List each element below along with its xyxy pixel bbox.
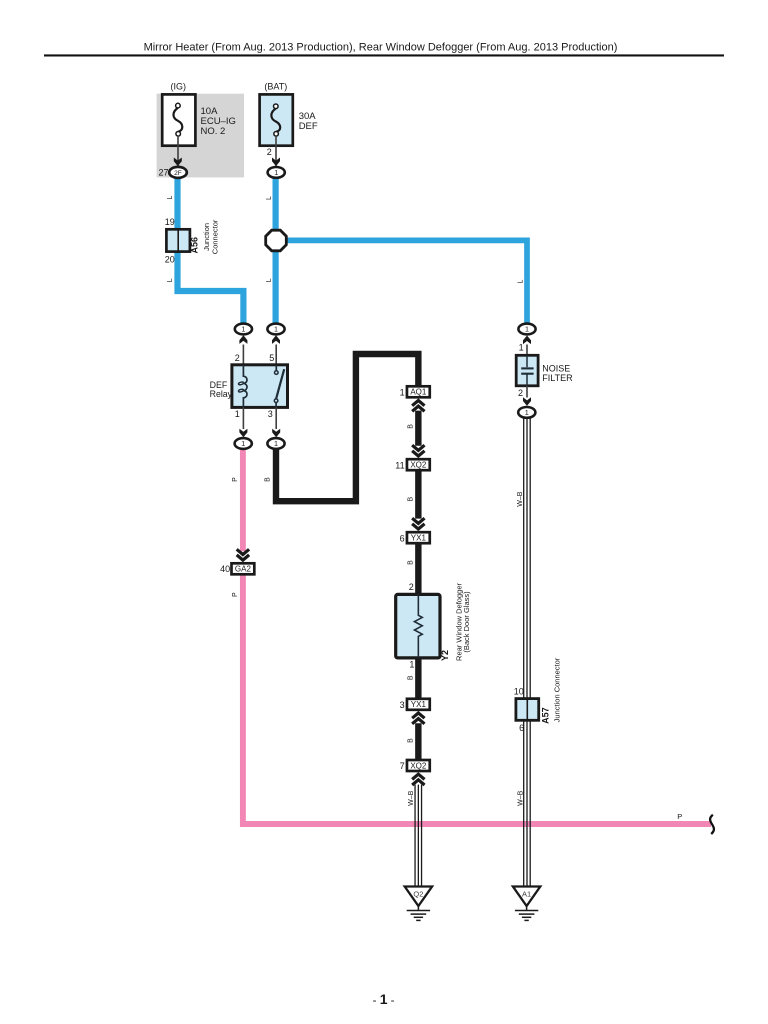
pin stub relay pin 5 [275,345,277,365]
label L (right wire upper) [266,196,273,200]
label P (wire P lower) [232,592,239,597]
svg-text:GA2: GA2 [235,565,252,574]
junction connector A56 [166,229,190,251]
svg-text:10: 10 [514,687,524,697]
label Y2 [440,650,450,661]
wire B connector YX1 to defogger Y2 pin 2 [415,543,421,595]
label Rear Window Defogger (Back Door Glass) [455,583,471,661]
svg-text:P: P [232,477,239,482]
svg-text:2: 2 [409,582,414,592]
svg-text:1: 1 [241,439,245,448]
svg-text:XQ2: XQ2 [410,761,427,770]
wire B from DEF relay pin 3 to connector AQ1 [276,354,418,501]
ground A1 [513,887,540,921]
fuse 10A ECU-IG NO.2 (IG) [162,82,236,146]
svg-text:2: 2 [267,147,272,157]
svg-text:1: 1 [235,409,240,419]
relay coil [238,365,247,408]
svg-text:1: 1 [400,387,405,397]
pin 2 label (fuse DEF) [267,147,272,157]
chevrons into connector YX1 [412,518,424,529]
svg-text:L: L [266,196,273,200]
label B (Y2-YX1) [408,675,415,680]
pin 1 label (relay) [235,409,240,419]
svg-text:2: 2 [518,388,523,398]
svg-text:1: 1 [519,343,524,353]
svg-text:3: 3 [400,700,405,710]
connector XQ2 lower [407,760,430,771]
label Junction Connector (A57) [553,657,562,722]
arrow into connector 2F [174,158,182,167]
noise filter box [516,355,538,386]
svg-text:1: 1 [274,325,278,334]
relay DEF box [232,365,288,408]
pin 2 label (relay) [235,353,240,363]
label P (wire P at page edge) [677,812,682,821]
label P (wire P upper) [232,477,239,482]
wire P from connector GA2 to page edge [243,574,711,824]
wire B defogger Y2 pin 1 to connector YX1 [415,657,421,700]
wire W-B connector XQ2 to ground Q2 [415,785,422,887]
svg-text:FILTER: FILTER [542,373,573,383]
svg-text:1: 1 [409,660,414,670]
svg-text:Mirror Heater (From Aug. 2013: Mirror Heater (From Aug. 2013 Production… [144,42,618,54]
pin 7 label (XQ2 lower) [400,761,405,771]
svg-text:A57: A57 [540,707,550,724]
pin 6 label (A57) [519,723,524,733]
connector oval 1 (noise filter) [518,407,535,418]
label W-B (right wire lower) [518,790,525,806]
svg-text:AQ1: AQ1 [410,388,427,397]
label A57 [540,707,550,724]
chevrons into connector YX1 lower [412,713,424,724]
svg-text:Q2: Q2 [413,890,423,899]
svg-text:5: 5 [269,353,274,363]
pin 2 label (noise filter) [518,388,523,398]
wire B connector AQ1 to connector XQ2 [415,411,421,446]
svg-text:(Back Door Glass): (Back Door Glass) [462,591,471,653]
svg-text:40: 40 [220,564,230,574]
wire L from fuse ECU-IG via A56 to DEF relay pin 2 [178,176,244,328]
arrow into connector (relay pin 5) [272,335,280,344]
connector 2F oval [169,167,187,178]
ground Q2 [405,887,432,921]
svg-text:P: P [232,592,239,597]
connector oval 1 (relay pin 2) [235,324,252,335]
svg-text:NOISE: NOISE [542,364,570,374]
connector oval 1 (relay pin 3) [267,438,284,449]
svg-text:B: B [408,497,415,502]
connector oval 1 (relay pin 1) [235,438,252,449]
svg-text:NO. 2: NO. 2 [201,126,226,137]
label W-B (right wire upper) [517,491,524,507]
svg-text:L: L [266,278,273,282]
wire L from fuse DEF to DEF relay pin 5 [273,176,279,328]
pin 2 label (Y2) [409,582,414,592]
pin 10 label (A57) [514,687,524,697]
wire B connector YX1 to connector XQ2 [415,723,421,760]
svg-text:1: 1 [525,325,529,334]
chevrons into connector XQ2 [412,445,424,456]
svg-text:27: 27 [158,168,168,178]
label L (left wire lower) [167,278,174,282]
pin stub relay pin 2 [242,345,244,365]
junction connector A57 [516,699,539,721]
connector YX1 lower [407,699,430,710]
svg-text:XQ2: XQ2 [410,461,427,470]
svg-text:B: B [408,560,415,565]
label A56 [190,237,200,254]
defogger Y2 box [396,594,440,658]
pin 1 label (Y2) [409,660,414,670]
label B (AQ1-XQ2) [408,424,415,429]
arrow into connector (relay pin 1) [239,429,247,438]
chevrons into connector AQ1 [412,401,424,412]
fuse 30A DEF (BAT) [260,82,318,146]
svg-text:(IG): (IG) [171,82,187,92]
svg-text:Connector: Connector [211,219,220,254]
svg-text:1: 1 [241,325,245,334]
svg-text:L: L [518,279,525,283]
wire B connector XQ2 to connector YX1 [415,470,421,518]
svg-text:6: 6 [519,723,524,733]
svg-text:YX1: YX1 [411,534,427,543]
svg-text:B: B [408,738,415,743]
label DEF Relay [210,380,233,399]
pin 27 label [158,168,168,178]
svg-text:(BAT): (BAT) [264,82,287,92]
svg-text:A56: A56 [190,237,200,254]
defogger Y2 resistor [414,594,422,658]
connector AQ1 [407,386,430,397]
pin 3 label (relay) [268,409,273,419]
pin 40 label (GA2) [220,564,230,574]
relay block shading (gray) [157,94,244,178]
label B (XQ2-YX1) [408,497,415,502]
connector XQ2 [407,459,430,470]
svg-text:DEF: DEF [299,121,318,132]
svg-text:L: L [167,278,174,282]
label B (YX1-XQ2 lower) [408,738,415,743]
arrow into connector (noise filter pin 2) [523,397,531,406]
svg-text:A1: A1 [522,890,531,899]
arrow into connector 1 (fuse DEF) [272,158,280,167]
svg-text:6: 6 [400,533,405,543]
pin 19 label (A56) [165,217,175,227]
title [144,42,618,54]
svg-text:20: 20 [165,255,175,265]
svg-text:2: 2 [235,353,240,363]
pin stub fuse IG to connector 2F [177,136,179,166]
connector oval 1 (fuse DEF) [268,167,285,178]
label L (right wire lower) [266,278,273,282]
pin stub relay pin 1 [242,407,244,429]
pin 20 label (A56) [165,255,175,265]
svg-text:Junction: Junction [202,223,211,251]
svg-text:B: B [408,675,415,680]
svg-text:B: B [408,424,415,429]
svg-text:YX1: YX1 [411,700,427,709]
pin 5 label (relay) [269,353,274,363]
label Junction Connector (A56) [202,219,220,254]
svg-text:W–B: W–B [408,790,415,806]
label L (noise filter branch) [518,279,525,283]
pin 3 label (YX1 lower) [400,700,405,710]
pin 11 label (XQ2) [395,460,404,470]
svg-text:P: P [677,812,682,821]
wire L from junction node to noise filter [285,240,527,327]
title rule [44,54,724,56]
wire P continuation squiggle [710,815,714,834]
label NOISE FILTER [542,364,573,384]
svg-text:W–B: W–B [517,491,524,507]
chevrons into connector XQ2 lower [412,774,424,785]
junction node (octagon) [266,230,287,251]
svg-text:11: 11 [395,460,404,470]
pin 1 label (AQ1) [400,387,405,397]
svg-text:Relay: Relay [210,389,233,399]
svg-text:L: L [167,195,174,199]
svg-text:Y2: Y2 [440,650,450,661]
svg-text:1: 1 [274,439,278,448]
label W-B (left ground wire) [408,790,415,806]
svg-text:Junction Connector: Junction Connector [553,657,562,722]
arrow into connector (relay pin 3) [272,429,280,438]
relay switch [274,365,284,408]
connector GA2 [232,563,255,574]
connector oval 1 (relay pin 5) [267,324,284,335]
pin stub fuse DEF pin 2 [275,136,277,166]
svg-text:1: 1 [274,168,278,177]
svg-text:3: 3 [268,409,273,419]
label L (left wire upper) [167,195,174,199]
svg-text:W–B: W–B [518,790,525,806]
wire W-B noise filter via junction A57 to ground A1 [524,418,531,887]
svg-text:B: B [265,477,272,482]
label B (YX1-Y2) [408,560,415,565]
pin 1 label (noise filter) [519,343,524,353]
connector oval (noise filter pin 1) [518,324,535,335]
label B (wire B at relay) [265,477,272,482]
pin stub relay pin 3 [275,407,277,429]
pin stub noise filter top [526,345,528,356]
arrow into connector (relay pin 2) [239,335,247,344]
pin stub noise filter bottom [526,386,528,398]
arrow into noise filter pin 1 [523,336,531,345]
svg-text:19: 19 [165,217,175,227]
chevrons into connector GA2 [237,549,249,560]
page number [373,991,395,1007]
svg-text:1: 1 [525,408,529,417]
pin 6 label (YX1) [400,533,405,543]
wire P from DEF relay pin 1 to connector GA2 [240,446,246,551]
svg-text:7: 7 [400,761,405,771]
connector YX1 [407,532,430,543]
svg-text:2F: 2F [174,170,182,177]
